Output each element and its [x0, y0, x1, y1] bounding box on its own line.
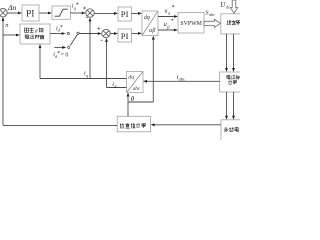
- phase wire inverter to current sensor (left): [225, 34, 228, 72]
- PI controller (d current) PI3: [118, 29, 132, 42]
- svg-text:αβ: αβ: [149, 28, 155, 34]
- PMSM motor block (clipped corner): [221, 120, 252, 145]
- block text 改进d轴 (line 1): [25, 28, 34, 33]
- svg-text:*: *: [171, 19, 174, 25]
- block text 电流弱磁 (line 2): [25, 35, 44, 39]
- phase wire inverter to current sensor (right): [232, 34, 235, 72]
- abc to dq transform block: [127, 72, 144, 93]
- inverter text 逆变器: [227, 20, 241, 25]
- wire ualpha* to SVPWM with arrow: [158, 15, 178, 18]
- svg-text:*: *: [60, 25, 63, 31]
- svg-text:PI: PI: [121, 9, 129, 19]
- node label Udc: [220, 1, 230, 10]
- dq to alpha-beta transform block: [142, 11, 158, 36]
- improved d-axis current field weakening block: [20, 24, 50, 44]
- wire iq feedback to FW block with arrow: [39, 44, 42, 79]
- wire motor to position sensor with arrow: [151, 123, 221, 126]
- inverter block (clipped at right edge): [221, 14, 252, 34]
- svg-text:*: *: [172, 5, 175, 11]
- node label Sabc: [205, 9, 215, 17]
- svg-text:abc: abc: [209, 12, 215, 17]
- wire id*=0 stub with arrow: [54, 46, 66, 49]
- phase wire sensor to motor (right): [232, 92, 235, 120]
- wire J2 to PI3 with arrow: [110, 32, 118, 35]
- wire J1 to PI2 with arrow: [94, 12, 118, 15]
- node label id*: [56, 25, 63, 33]
- svg-text:SVPWM: SVPWM: [180, 21, 202, 27]
- wire PI2 to dq-ab block with arrow: [132, 12, 143, 15]
- sign + at J2: [98, 27, 101, 30]
- node label iabc: [177, 74, 186, 82]
- wire PI3 to dq-ab block with arrow: [132, 32, 143, 35]
- node label ubeta*: [164, 19, 174, 30]
- svg-text:dc: dc: [226, 4, 230, 9]
- phase wire sensor to motor (left): [225, 92, 228, 120]
- SVPWM block: [178, 13, 204, 34]
- saturation limiter block: [52, 6, 70, 19]
- wire FW output to switch contact with arrow: [50, 32, 66, 35]
- switch lower fixed contact: [68, 46, 70, 48]
- PI controller (q current) PI2: [118, 7, 132, 21]
- sign - at J1: [86, 16, 88, 18]
- motor text 永磁电机: [224, 127, 242, 132]
- PI controller (speed) PI1: [22, 5, 39, 21]
- wire ubeta* to SVPWM with arrow: [158, 29, 178, 32]
- wire theta from position sensor to dq/abc with arrow: [127, 93, 130, 117]
- svg-text:PI: PI: [26, 9, 34, 19]
- svg-text:= 0: = 0: [61, 52, 69, 58]
- wire PI1 to saturation with arrow: [39, 12, 52, 15]
- sign + at J1: [83, 7, 86, 10]
- wire theta branch vertical to dq-ab block with arrow: [152, 36, 155, 102]
- node label id*=0: [53, 51, 68, 59]
- switch common contact: [77, 32, 79, 34]
- wire id feedback horizontal: [107, 87, 127, 89]
- wire iabc from sensor to dq/abc block with arrow: [143, 80, 220, 83]
- node label iq (feedback): [84, 71, 89, 78]
- wire n feedback vertical to J0 with arrow: [2, 17, 5, 126]
- sign - at J2: [101, 39, 103, 41]
- svg-text:Δn: Δn: [7, 3, 16, 12]
- switch upper fixed contact: [67, 32, 69, 34]
- node label ualpha*: [165, 5, 175, 15]
- svg-text:dq: dq: [128, 75, 134, 81]
- hollow arrow SVPWM to inverter: [204, 19, 221, 27]
- svg-text:abc: abc: [133, 86, 141, 92]
- wire switch to J2 with arrow: [79, 32, 102, 35]
- summing junction J0 (speed error): [0, 9, 7, 17]
- wire n branch to FW block with arrow: [3, 34, 20, 37]
- svg-text:*: *: [76, 2, 79, 8]
- position sensor block: [117, 116, 150, 132]
- svg-text:dq: dq: [144, 15, 150, 21]
- switch lever wire: [70, 34, 77, 45]
- wire J0 to PI1 with arrow: [7, 12, 22, 15]
- wire id feedback vertical to J2 with arrow: [105, 38, 108, 88]
- wire iq feedback to J1 with arrow: [89, 17, 92, 78]
- wire iq feedback horizontal: [40, 78, 127, 80]
- summing junction J2 (d current error): [102, 29, 110, 37]
- svg-text:n: n: [5, 22, 8, 29]
- wire n feedback bus from position sensor: [3, 124, 117, 126]
- node label iq*: [72, 2, 79, 10]
- wire theta branch horizontal: [128, 101, 153, 103]
- summing junction J1 (q current error): [86, 9, 94, 17]
- node label id (feedback): [112, 82, 117, 89]
- svg-text:abc: abc: [179, 77, 186, 82]
- svg-text:PI: PI: [121, 31, 129, 41]
- hollow arrow Udc into inverter: [230, 0, 237, 13]
- current sensor text 电流传 / 感器: [227, 75, 240, 85]
- svg-text:d: d: [35, 29, 38, 35]
- position sensor text 位置传感器: [120, 123, 146, 128]
- current sensor block (clipped at right edge): [220, 72, 251, 92]
- wire saturation to J1 with arrow: [70, 12, 85, 15]
